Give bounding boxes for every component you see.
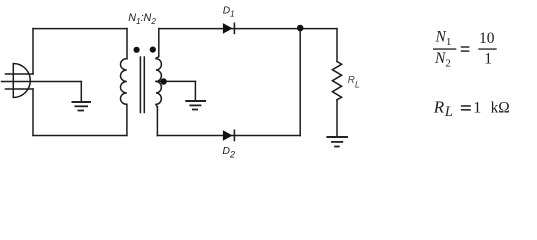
- svg-text:RL: RL: [433, 98, 453, 121]
- svg-text:1: 1: [473, 100, 481, 117]
- wire center tap drop: [194, 82, 196, 101]
- wire left vertical lower: [32, 89, 34, 136]
- wire top left: [33, 28, 127, 30]
- transformer T1 primary winding: [121, 59, 127, 105]
- wire load drop: [336, 29, 338, 62]
- wire ground drop: [80, 82, 82, 102]
- svg-text:N1:N2: N1:N2: [128, 12, 156, 26]
- wire bottom right from secondary to D2: [157, 135, 300, 137]
- svg-text:D1: D1: [223, 6, 235, 19]
- wire secondary top lead: [158, 29, 160, 57]
- ac plug top prong: [6, 73, 34, 75]
- ac plug ground pin wire: [2, 81, 82, 83]
- wire primary bottom lead: [126, 104, 128, 135]
- node output junction: [297, 25, 304, 32]
- equation N1/N2 = 10/1: [433, 29, 497, 70]
- ground G1 (mains): [72, 101, 92, 103]
- wire secondary bottom lead: [156, 107, 158, 136]
- ground G3 (load): [326, 136, 348, 138]
- ground G2 (center tap): [185, 100, 206, 102]
- ac plug bottom prong: [6, 88, 34, 90]
- transformer T1 secondary winding: [156, 56, 162, 107]
- svg-text:N1: N1: [435, 29, 452, 49]
- wire resistor to ground: [336, 100, 338, 137]
- diode D1: [223, 23, 235, 35]
- wire output riser: [299, 28, 301, 136]
- svg-text:10: 10: [479, 30, 495, 47]
- svg-text:1: 1: [484, 51, 492, 68]
- transformer T1 core: [140, 57, 144, 113]
- diode D2: [223, 130, 235, 142]
- svg-text:RL: RL: [348, 75, 360, 89]
- node center tap junction: [160, 78, 166, 84]
- wire top right to D1 and load: [159, 28, 337, 30]
- resistor RL zigzag: [332, 62, 341, 100]
- wire primary top lead: [126, 29, 128, 59]
- svg-text:D2: D2: [222, 145, 235, 160]
- svg-text:kΩ: kΩ: [491, 100, 510, 117]
- polarity dot primary: [134, 47, 140, 53]
- wire center tap: [156, 80, 196, 82]
- equation RL = 1 kOhm: [433, 98, 510, 121]
- wire left vertical upper: [32, 29, 34, 74]
- ac plug P1 body: [13, 64, 30, 98]
- wire bottom left: [33, 135, 127, 137]
- svg-text:N2: N2: [434, 50, 451, 70]
- polarity dot secondary: [150, 47, 156, 53]
